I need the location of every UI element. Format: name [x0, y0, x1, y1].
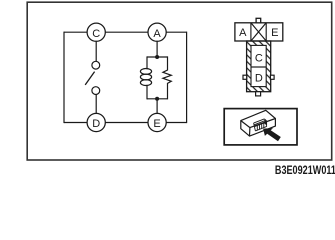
- connector pin C cell: [255, 52, 263, 64]
- connector keyway cell with X: [251, 23, 266, 41]
- terminal A: [148, 23, 166, 41]
- svg-text:A: A: [239, 27, 247, 39]
- junction node (bottom): [155, 97, 159, 101]
- terminal C: [87, 23, 105, 41]
- arrow pointing at relay pins: [263, 128, 281, 141]
- svg-text:B3E0921W011: B3E0921W011: [275, 164, 335, 178]
- connector right side tab: [270, 75, 274, 79]
- connector pin D cell: [255, 72, 263, 84]
- terminal D: [87, 113, 105, 131]
- wire: circuit right side: [186, 32, 188, 124]
- connector body column (hatched walls): [247, 41, 271, 92]
- connector pinout: top tab: [256, 18, 261, 23]
- drawing outer frame: [27, 2, 332, 160]
- wire: circuit bottom side: [64, 122, 187, 124]
- wire: block down to E: [156, 99, 158, 123]
- relay pin grid: [254, 119, 267, 131]
- part number text: [275, 164, 335, 178]
- terminal E: [148, 113, 166, 131]
- svg-text:A: A: [153, 28, 161, 40]
- connector pin E label cell: [271, 27, 278, 39]
- relay body (3D view): [241, 110, 276, 136]
- connector pin A label cell: [239, 27, 247, 39]
- svg-text:C: C: [92, 28, 100, 40]
- svg-text:E: E: [271, 27, 278, 39]
- connector pinout: outer row box: [235, 23, 283, 41]
- connector C/D divider: [251, 66, 266, 68]
- relay icon box: [224, 109, 297, 145]
- svg-text:E: E: [153, 118, 160, 130]
- wire: circuit left side: [63, 32, 65, 124]
- relay coil L (left branch): [140, 56, 151, 99]
- wire: circuit top side: [64, 31, 187, 33]
- wire: switch bottom contact to D: [95, 95, 97, 123]
- junction node (top): [155, 55, 159, 59]
- switch S (open contact): [85, 61, 100, 94]
- svg-text:D: D: [255, 72, 263, 84]
- wire: A down to parallel block: [156, 32, 158, 57]
- wire: parallel block bottom bar: [147, 98, 168, 100]
- wire: parallel block top bar: [147, 56, 168, 58]
- svg-text:C: C: [255, 52, 263, 64]
- svg-text:D: D: [92, 118, 100, 130]
- resistor R (right branch): [163, 56, 171, 99]
- wire: C to switch top contact: [95, 32, 97, 61]
- connector bottom tab: [256, 92, 261, 96]
- connector left side tab: [243, 75, 247, 79]
